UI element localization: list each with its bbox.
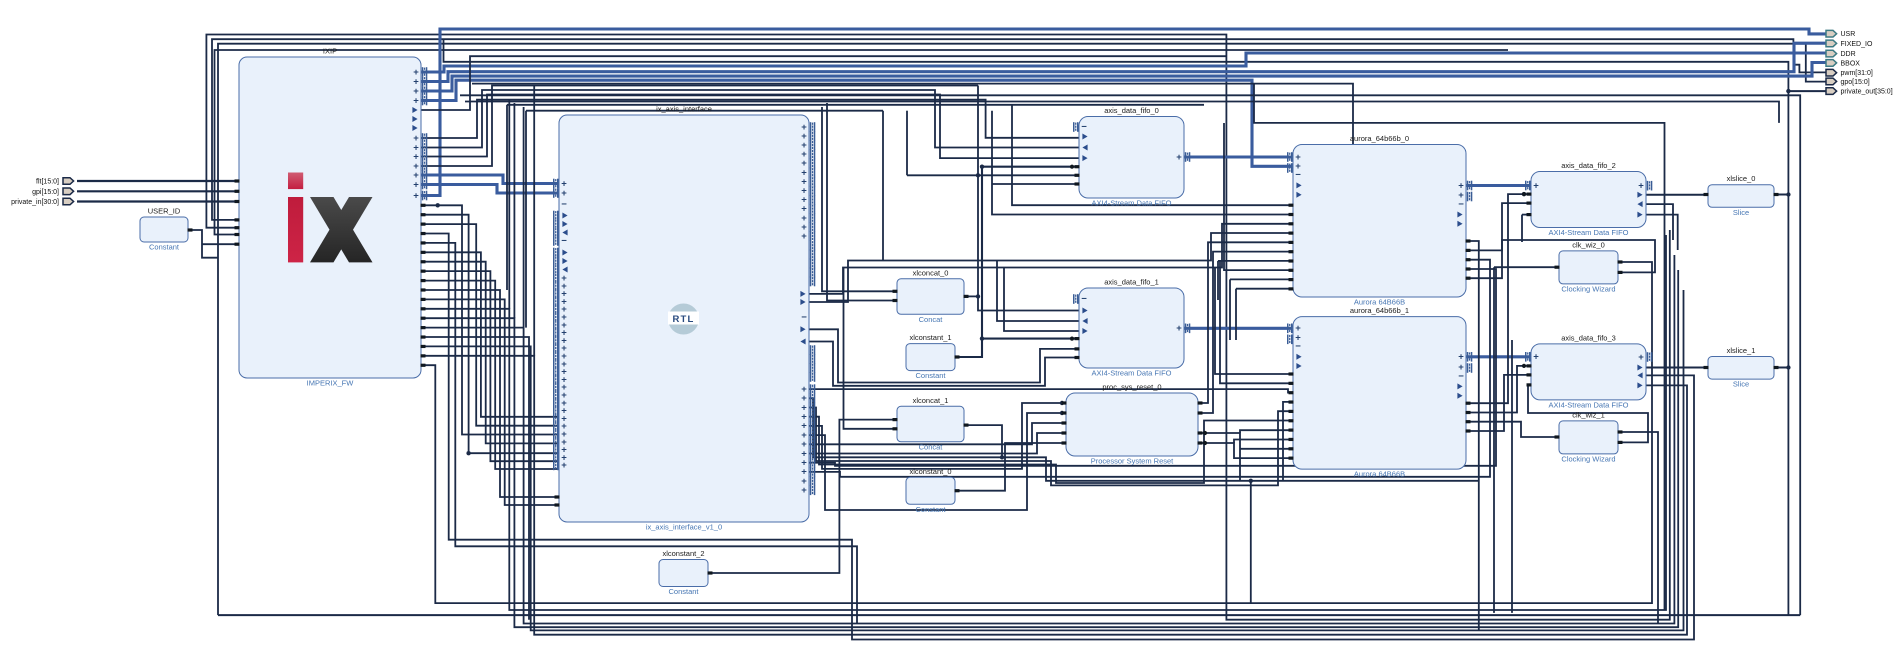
wire to aurora1 in7b [1240, 430, 1293, 433]
svg-text:proc_sys_reset_0: proc_sys_reset_0 [1102, 383, 1161, 392]
wire axis p2 long [809, 398, 1479, 481]
wire s14 bottom [421, 255, 1674, 624]
interface wire to FIXED_IO [421, 43, 1826, 81]
svg-text:IMPERIX_FW: IMPERIX_FW [307, 379, 355, 388]
wire to aurora0 in6 [1224, 123, 1293, 270]
wire s18 bottom to clkwiz0 [423, 262, 1652, 603]
interface wire aurora0 to fifo2 [1466, 184, 1531, 187]
wire v883 [882, 111, 884, 261]
wire s3 [421, 224, 559, 426]
wire v534 ext [533, 86, 535, 356]
wire clkwiz0 in [1494, 266, 1559, 268]
svg-text:−: − [801, 312, 807, 323]
wire axis p6 to reset [809, 413, 1066, 510]
wire aurora1 to fifo3 b [1466, 375, 1531, 431]
wire axis m01 to aurora0 [809, 233, 1293, 302]
junction [1060, 401, 1064, 405]
block clk_wiz_1 [1559, 410, 1618, 463]
svg-text:+: + [1638, 181, 1644, 192]
svg-text:+: + [1176, 152, 1182, 163]
wire axis p4 to aurora1 [809, 417, 1293, 483]
wire axis p2 branch to aurora1 [1283, 402, 1293, 481]
wire v526 [525, 111, 527, 328]
wire v509 ext [508, 99, 510, 309]
wire fifo2 c [1646, 215, 1678, 250]
svg-text:Constant: Constant [915, 505, 946, 514]
svg-text:RTL: RTL [672, 314, 694, 325]
wire s15 bottom [421, 337, 529, 620]
svg-text:private_out[35:0]: private_out[35:0] [1841, 89, 1893, 96]
svg-text:xlconcat_0: xlconcat_0 [913, 268, 949, 277]
wire v907 [906, 111, 908, 176]
block aurora_64b66b_0 [1293, 134, 1466, 307]
wire axis p1 to aurora1 [809, 389, 1293, 393]
wire to aurora1 in2 [1220, 261, 1293, 384]
interface wire to aurora0 gt [421, 80, 1293, 166]
wire to aurora0 in1 [1012, 105, 1293, 205]
junction [1786, 89, 1790, 93]
wire reset to aurora0 a [1198, 242, 1293, 403]
svg-text:−: − [1458, 371, 1464, 382]
wire aurora0 r1 down [1466, 241, 1479, 630]
wire frame y110 [526, 110, 883, 112]
svg-text:AXI4-Stream Data FIFO: AXI4-Stream Data FIFO [1548, 228, 1628, 237]
wire concat0 in1 [827, 103, 897, 301]
wire USER_ID to IXIP [202, 243, 239, 245]
wire X2 y100 [465, 102, 1779, 123]
svg-text:FIXED_IO: FIXED_IO [1841, 41, 1873, 48]
wire v523 ext [523, 107, 525, 328]
svg-text:aurora_64b66b_1: aurora_64b66b_1 [1350, 306, 1409, 315]
block proc_sys_reset_0 [1066, 383, 1198, 466]
junction [976, 173, 980, 177]
junction [1522, 192, 1526, 196]
svg-text:gpi[15:0]: gpi[15:0] [32, 189, 59, 196]
svg-text:Slice: Slice [1733, 380, 1749, 389]
wire s16 bottom [421, 290, 1684, 630]
svg-text:pwm[31:0]: pwm[31:0] [1841, 70, 1873, 77]
wire to aurora0 in7 [1230, 278, 1293, 280]
wire v1251 down [1250, 481, 1252, 603]
svg-text:Concat: Concat [919, 315, 944, 324]
wire X1 long net [460, 95, 1800, 615]
wire fifo2 to slice0 [1646, 194, 1708, 196]
wire IXIP net y85 [421, 86, 978, 167]
wire to aurora1 in1 [1215, 268, 1293, 375]
svg-text:Aurora 64B66B: Aurora 64B66B [1354, 470, 1405, 479]
wire clkwiz1 out1 [1618, 432, 1658, 624]
interface wire IXIP to ix_axis s00 [421, 175, 559, 184]
wire v1512 [1511, 340, 1513, 613]
wire reset right a [1198, 433, 1240, 481]
IXIP right interface pins [422, 67, 428, 77]
wire thick bottom line [218, 614, 1800, 616]
wire frame y105 [507, 104, 1204, 106]
wire clkwiz0 loop [1466, 240, 1655, 272]
wire IXIP to fifo0 s_axis [421, 100, 1079, 138]
junction [1249, 479, 1253, 483]
wire fifo0 in 175 [907, 174, 1079, 176]
wire axis m00 to aurora0 [809, 224, 1293, 294]
wire v1230 [1229, 279, 1231, 340]
svg-text:ix_axis_interface_v1_0: ix_axis_interface_v1_0 [646, 523, 722, 532]
wire concat0 out [964, 295, 978, 297]
junction [1060, 411, 1064, 415]
block axis_data_fifo_2 [1531, 161, 1646, 237]
interface wire to DDR [421, 53, 1826, 72]
wire aurora1 to clkwiz1 [1466, 422, 1559, 437]
ix_axis_interface right pins [810, 122, 816, 132]
svg-text:xlconstant_2: xlconstant_2 [662, 549, 704, 558]
svg-text:−: − [561, 199, 567, 210]
wire fifo2 in [1522, 214, 1531, 216]
wire axis to fifo1 a [809, 329, 1079, 382]
wire const1 to fifo1 [955, 339, 1079, 357]
wire s8 [421, 271, 559, 461]
svg-text:clk_wiz_0: clk_wiz_0 [1572, 240, 1605, 249]
svg-text:−: − [1081, 122, 1087, 133]
wire axis p8 to reset [809, 433, 1066, 454]
block clk_wiz_0 [1559, 240, 1618, 293]
wire v1218 [1217, 261, 1219, 300]
interface wire IXIP to ix_axis s01 [421, 185, 559, 194]
wire axis to fifo1 b [809, 342, 1079, 386]
wire axis p10 to aurora0 right [809, 260, 1490, 477]
block axis_data_fifo_0 [1079, 106, 1184, 208]
svg-text:Constant: Constant [915, 371, 946, 380]
wire axis p3 to aurora1 [809, 408, 1293, 486]
svg-text:Processor System Reset: Processor System Reset [1091, 457, 1174, 466]
junction [1000, 455, 1004, 459]
wire private_out stub [1788, 90, 1826, 92]
output port private_out[35:0] [1826, 88, 1837, 95]
wire s1 [421, 205, 559, 434]
interface wire to USR [421, 29, 1826, 196]
wire to aurora1 in8b [1234, 440, 1293, 444]
wire s6 [421, 252, 559, 416]
wire aurora0 clk to fifo2 [1466, 203, 1531, 278]
svg-text:xlslice_1: xlslice_1 [1727, 346, 1756, 355]
svg-text:xlslice_0: xlslice_0 [1727, 174, 1756, 183]
wire net to pwm [212, 39, 1826, 220]
junction [980, 165, 984, 169]
junction [1786, 192, 1790, 196]
wire reset to aurora0 b [1198, 252, 1293, 413]
input port flt[15:0] [63, 178, 74, 185]
svg-text:Clocking Wizard: Clocking Wizard [1561, 454, 1615, 463]
wire to fifo1 in2 [997, 261, 1079, 322]
junction [976, 294, 980, 298]
svg-text:flt[15:0]: flt[15:0] [36, 179, 59, 186]
block ix_axis_interface [559, 105, 809, 532]
svg-text:BBOX: BBOX [1841, 60, 1861, 67]
wire concat1 in1 [844, 268, 898, 429]
wire net to gpo [218, 44, 1826, 615]
wire clkwiz1 out2 [1528, 385, 1648, 443]
wire net L-A loop [206, 35, 1669, 620]
wire axis p7 to reset [809, 423, 1066, 444]
wire net L-D top [215, 50, 1509, 235]
wire USER_ID down [188, 230, 218, 258]
block xlconcat_1 [897, 396, 964, 452]
imperix ix logo [288, 173, 373, 263]
junction [466, 451, 470, 455]
wire IXIP to fifo0 in3 [421, 95, 1079, 159]
wire inner box line [1254, 84, 1665, 610]
wire to fifo1 in3 [1004, 268, 1079, 332]
wire y83 line [472, 84, 1353, 145]
interface wire to BBOX [421, 63, 1826, 92]
svg-text:clk_wiz_1: clk_wiz_1 [1572, 410, 1605, 419]
wire to fifo0 in [992, 183, 1079, 185]
wire aurora1 clk to fifo3 [1466, 366, 1531, 413]
block xlconcat_0 [897, 268, 964, 324]
svg-text:Slice: Slice [1733, 208, 1749, 217]
junction [436, 203, 440, 207]
wire axis p5 to reset [809, 403, 1066, 469]
wire arrow pin net y56 [421, 56, 1226, 110]
wire s4 bottom to fifo3 [421, 234, 1694, 640]
svg-text:+: + [561, 188, 567, 199]
output interface port FIXED_IO [1826, 40, 1837, 47]
block xlslice_1 [1708, 346, 1774, 389]
svg-text:axis_data_fifo_1: axis_data_fifo_1 [1104, 278, 1159, 287]
wire s17 to fifo3 prog [421, 356, 1687, 635]
input port gpi[15:0] [63, 188, 74, 195]
wire const0 to reset [955, 443, 1066, 491]
wire v1494 [1493, 267, 1495, 613]
svg-text:Constant: Constant [149, 243, 180, 252]
output interface port USR [1826, 30, 1837, 37]
block xlconstant_2 [659, 549, 708, 596]
wire v514 ext [513, 103, 515, 318]
interface wire fifo0 to aurora0 [1184, 155, 1293, 158]
output interface port DDR [1826, 50, 1837, 57]
RTL icon [668, 304, 699, 335]
block axis_data_fifo_3 [1531, 333, 1646, 409]
wire s2 [421, 215, 559, 454]
svg-text:axis_data_fifo_2: axis_data_fifo_2 [1561, 161, 1616, 170]
svg-text:−: − [1458, 199, 1464, 210]
wire s11 [421, 299, 559, 505]
wire s12 bottom [421, 235, 1666, 610]
input port private_in[30:0] [63, 198, 74, 205]
svg-text:axis_data_fifo_0: axis_data_fifo_0 [1104, 106, 1159, 115]
svg-text:+: + [413, 95, 419, 106]
wire s5 bottom [421, 243, 857, 624]
wire concat0 in0 [822, 107, 897, 291]
interface wire aurora1 to fifo3 [1466, 355, 1531, 358]
block USER_ID Constant [140, 207, 188, 252]
svg-text:+: + [413, 179, 419, 190]
wire slice1 out [1774, 367, 1788, 369]
svg-text:+: + [413, 190, 419, 201]
block xlconstant_0 [906, 467, 955, 514]
svg-text:USER_ID: USER_ID [148, 207, 181, 216]
svg-text:+: + [1533, 180, 1539, 191]
svg-text:gpo[15:0]: gpo[15:0] [1841, 79, 1870, 86]
svg-text:−: − [1295, 170, 1301, 181]
wire v1236 [1235, 289, 1237, 340]
svg-text:Concat: Concat [919, 442, 944, 451]
wire s10 [421, 290, 559, 497]
wire axis p9 to aurora0 right [809, 269, 1496, 466]
wire to aurora0 in2 [992, 111, 1293, 215]
svg-text:+: + [1176, 323, 1182, 334]
IXIP left input pin stubs [235, 179, 240, 182]
svg-text:AXI4-Stream Data FIFO: AXI4-Stream Data FIFO [1548, 400, 1628, 409]
output port gpo[15:0] [1826, 78, 1837, 85]
wire to aurora0 in8 [1236, 288, 1293, 290]
wire v1522 [1521, 215, 1523, 242]
wire tall vertical 1788 net [444, 39, 1789, 615]
wire s9 [421, 281, 559, 469]
svg-text:+: + [1533, 352, 1539, 363]
svg-text:xlconstant_0: xlconstant_0 [909, 467, 951, 476]
wire s7 [421, 262, 559, 444]
svg-text:+: + [801, 231, 807, 242]
svg-text:USR: USR [1841, 31, 1856, 38]
wire v978 to fifo1 [978, 86, 1079, 311]
svg-text:−: − [1295, 341, 1301, 352]
block axis_data_fifo_1 [1079, 278, 1184, 378]
svg-text:axis_data_fifo_3: axis_data_fifo_3 [1561, 333, 1616, 342]
interface wire fifo1 to aurora1 [1184, 327, 1293, 330]
wire reset to aurora1 b [1198, 443, 1293, 458]
ix_axis_interface left pins [553, 179, 559, 189]
block xlslice_0 [1708, 174, 1774, 217]
wire fifo2 b [1646, 204, 1673, 240]
wire concat1 out [964, 425, 1002, 457]
wire private_in to IXIP [77, 200, 239, 202]
svg-text:AXI4-Stream Data FIFO: AXI4-Stream Data FIFO [1091, 369, 1171, 378]
wire gpi to IXIP [77, 190, 239, 192]
svg-text:+: + [561, 460, 567, 471]
wire s13 bottom [421, 270, 1678, 627]
svg-text:aurora_64b66b_0: aurora_64b66b_0 [1350, 134, 1409, 143]
block IXIP IMPERIX_FW [239, 47, 421, 388]
wire flt to IXIP [77, 180, 239, 182]
junction [980, 336, 984, 340]
svg-text:private_in[30:0]: private_in[30:0] [11, 199, 59, 206]
wire const1 to fifo0 [982, 167, 1079, 339]
wire fifo3 to slice1 [1646, 367, 1708, 369]
svg-text:Constant: Constant [668, 587, 699, 596]
svg-text:xlconstant_1: xlconstant_1 [909, 333, 951, 342]
output interface port BBOX [1826, 60, 1837, 67]
svg-text:DDR: DDR [1841, 51, 1856, 58]
wire aurora1 clk to fifo2 [1466, 194, 1531, 403]
svg-text:−: − [1081, 294, 1087, 305]
svg-text:AXI4-Stream Data FIFO: AXI4-Stream Data FIFO [1091, 199, 1171, 208]
svg-text:+: + [801, 485, 807, 496]
svg-text:IXIP: IXIP [323, 47, 337, 56]
junction [1786, 365, 1790, 369]
wire slice0 out [1774, 194, 1788, 196]
wire IXIP to fifo0 in2 [421, 90, 1079, 148]
block aurora_64b66b_1 [1293, 306, 1466, 479]
wire to aurora0 in5 [1218, 260, 1293, 262]
block xlconstant_1 [906, 333, 955, 380]
IXIP right output pin stubs [421, 204, 426, 207]
wire v507 [506, 105, 508, 290]
output port pwm[31:0] [1826, 69, 1837, 76]
wire to aurora1 in9 [1240, 448, 1293, 450]
svg-text:+: + [1638, 352, 1644, 363]
svg-text:xlconcat_1: xlconcat_1 [913, 396, 949, 405]
wire const2 to concat1 [708, 420, 897, 573]
svg-text:Clocking Wizard: Clocking Wizard [1561, 284, 1615, 293]
svg-text:−: − [561, 236, 567, 247]
svg-text:ix_axis_interface: ix_axis_interface [656, 105, 712, 114]
